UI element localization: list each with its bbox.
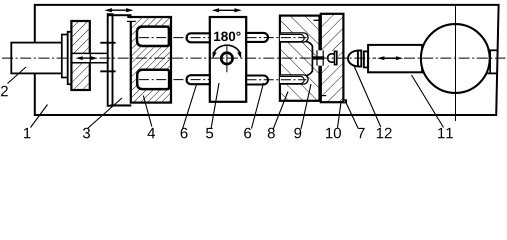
- nut on shaft: [62, 35, 68, 78]
- lower slot in block 8: [280, 75, 308, 84]
- arrow above block 5: [217, 9, 236, 11]
- leader 3: [88, 98, 122, 128]
- pin 6 lower left: [187, 75, 210, 84]
- arrow in band: [79, 57, 95, 59]
- label 6: [181, 128, 188, 139]
- leader 7: [345, 101, 358, 129]
- label 3: [83, 128, 90, 139]
- bracket cross pin lower: [100, 70, 115, 72]
- shaft 2: [11, 43, 67, 74]
- wheel vertical centerline over wheel: [455, 25, 457, 122]
- leader 11: [412, 75, 444, 128]
- label 1: [24, 128, 30, 138]
- funnel lower: [306, 60, 313, 76]
- label 9: [294, 128, 301, 139]
- leader 8: [273, 92, 288, 130]
- label 10: [326, 128, 332, 138]
- leader 6b: [252, 83, 264, 129]
- leader 9: [301, 84, 311, 129]
- pin 6 upper left: [187, 33, 210, 42]
- pin inside lower slot: [280, 76, 304, 83]
- thin shaft band through disc: [73, 54, 90, 62]
- upper slot in block 8: [280, 33, 308, 42]
- leader 10: [338, 102, 342, 128]
- pin inside upper slot: [280, 34, 304, 41]
- foot under block 10 (item 7): [344, 100, 347, 103]
- bracket 3 vertical plate: [108, 14, 113, 106]
- bracket cross pin upper: [100, 42, 115, 44]
- leader 2: [8, 67, 27, 84]
- head flange: [335, 51, 337, 64]
- label 6: [244, 128, 251, 139]
- head ball: [328, 54, 337, 63]
- leader 12: [354, 65, 381, 127]
- wheel 11: [421, 24, 490, 93]
- pin 6 lower right: [246, 76, 268, 85]
- upper jaw hole: [137, 27, 169, 46]
- label 12: [377, 128, 383, 138]
- label 11: [438, 128, 444, 138]
- upper station centerline left: [139, 37, 210, 39]
- bracket 3 top shelf: [108, 14, 132, 16]
- pusher front plate: [364, 51, 368, 67]
- bracket 3 bottom shelf: [110, 104, 131, 106]
- vertical centerline of wheel 11: [455, 5, 457, 121]
- outlet line lower: [488, 72, 498, 74]
- text 180 deg: [214, 32, 220, 41]
- rotation arc with arrows: [214, 45, 241, 53]
- block 10 (die, hatched): [321, 14, 344, 102]
- part 12 flange: [358, 51, 361, 67]
- leader 5: [211, 83, 219, 129]
- lower jaw hole: [137, 70, 169, 89]
- bracket groove notch in block 4: [127, 18, 136, 21]
- block 4 (clamp body, hatched): [127, 17, 171, 103]
- disc (hatched flywheel): [71, 21, 89, 90]
- arrow inside pusher: [383, 57, 398, 59]
- outlet pocket left wall: [489, 50, 491, 73]
- lower station centerline left: [139, 79, 210, 81]
- block 5 (rotator body): [210, 17, 246, 102]
- label 8: [268, 128, 275, 139]
- leader 1: [31, 105, 48, 128]
- upper station centerline right: [247, 37, 307, 39]
- rotator circle: [221, 53, 232, 64]
- main centerline middle segment: [100, 57, 377, 59]
- label 4: [147, 128, 155, 138]
- funnel upper: [306, 41, 313, 56]
- label 5: [206, 128, 213, 138]
- part 12 dome: [348, 51, 358, 67]
- outlet line upper: [488, 49, 498, 51]
- arrow above bracket 3: [110, 9, 128, 11]
- head cavity in block 10: [324, 51, 338, 66]
- weld cavity between dies: [316, 50, 324, 65]
- washer plate: [68, 32, 72, 84]
- lower station centerline right: [247, 79, 307, 81]
- main centerline right segment: [404, 57, 506, 59]
- pin 6 upper right: [246, 33, 268, 42]
- label 2: [1, 86, 8, 96]
- label 7: [358, 128, 365, 138]
- frame (machine bed, item 1): [35, 5, 499, 115]
- leader 4: [143, 96, 152, 127]
- tick at top of die joint: [314, 19, 321, 21]
- tick at bottom of die joint: [321, 95, 327, 97]
- weld rod: [312, 56, 327, 59]
- pusher block 7: [368, 45, 422, 72]
- leader 6a: [183, 83, 198, 129]
- block 8 (die, back-hatched): [280, 16, 320, 101]
- main centerline left segment: [2, 57, 75, 59]
